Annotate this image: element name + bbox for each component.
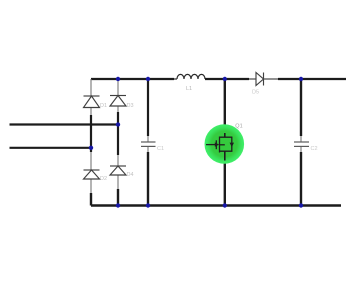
transistor Q1 gate arrowhead [215,142,219,146]
wire AC input line bottom [10,147,92,149]
diode D3 [110,96,126,107]
diode D4 [110,166,126,175]
junction node bottom bus / Q1 source [223,203,227,207]
svg-text:C2: C2 [311,146,318,152]
transistor Q1 body-diode arrowhead [230,143,234,148]
wire bridge left leg [90,79,92,206]
wire C2 branch [300,79,302,206]
capacitor C1 [141,142,156,146]
junction node bottom bus / C2 [299,203,303,207]
svg-text:D3: D3 [127,103,134,109]
capacitor C2 [294,142,309,146]
wire C1 branch [147,79,149,206]
junction node top bus / C2 [299,77,303,81]
svg-text:D1: D1 [100,103,107,109]
junction node top bus / D3 leg [116,77,120,81]
wire bottom bus [91,204,341,206]
svg-text:Q1: Q1 [235,123,242,129]
junction node top bus / C1 [146,77,150,81]
svg-text:C1: C1 [157,146,164,152]
diode D2 [84,170,100,179]
junction node top bus / Q1 drain [223,77,227,81]
svg-text:D5: D5 [252,90,259,96]
svg-text:D4: D4 [127,172,134,178]
wire top bus mid segment [205,78,249,80]
wire AC input line top [10,123,119,125]
wire bridge right leg [117,79,119,206]
highlight circle around Q1 [205,124,245,164]
wire top bus right segment [278,78,346,80]
junction node AC top / bridge [116,122,120,126]
junction node bottom bus / C1 [146,203,150,207]
wire Q1 drain branch [224,79,226,135]
inductor L1 [174,74,205,79]
junction node AC bottom / bridge [89,146,93,150]
svg-text:D2: D2 [100,176,107,182]
junction node bottom bus / D4 leg [116,203,120,207]
transistor Q1 [206,133,232,161]
svg-text:L1: L1 [186,86,192,92]
diode D1 [84,96,100,108]
wire Q1 source branch [224,160,226,206]
diode D5 [249,73,278,86]
wire top bus left segment [91,78,174,80]
